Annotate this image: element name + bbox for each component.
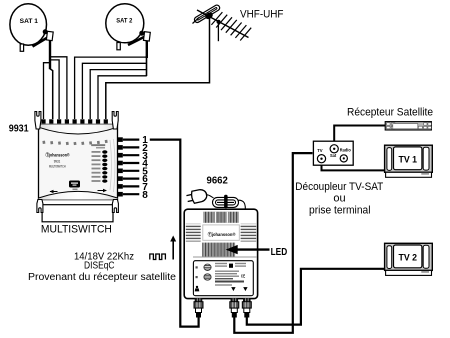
- antenna reflector tick: [193, 18, 200, 24]
- svg-text:Ⓣjohansson®: Ⓣjohansson®: [46, 151, 71, 158]
- multiswitch 9931: [35, 112, 119, 222]
- out labels column: [92, 150, 108, 183]
- satellite dish SAT1: [10, 4, 48, 52]
- svg-text:Récepteur Satellite: Récepteur Satellite: [347, 107, 433, 119]
- svg-text:TV: TV: [317, 148, 323, 153]
- wire LNB2 to input 8: [98, 76, 147, 119]
- svg-text:9931: 9931: [54, 160, 61, 164]
- svg-text:Découpleur TV-SAT: Découpleur TV-SAT: [295, 181, 383, 193]
- wall plate decoupleur: [313, 141, 353, 165]
- 9662 connector left: [194, 298, 203, 317]
- panel texture arcs: [110, 139, 115, 192]
- annotation pulse symbol: [150, 254, 166, 260]
- wire antenna to input 9: [106, 16, 210, 119]
- bottom left arrow: [50, 190, 58, 194]
- svg-text:Ⓣjohansson®: Ⓣjohansson®: [208, 231, 236, 238]
- mounting lug bottom-right: [112, 200, 118, 213]
- wire wall plate Sat to receiver: [334, 126, 385, 146]
- tiny marks left: [196, 266, 198, 268]
- svg-text:SAT 1: SAT 1: [20, 18, 39, 25]
- amplifier 9662 body: [184, 209, 257, 298]
- badge sub text: [73, 189, 78, 191]
- wire LNB1 to input 3: [50, 60, 59, 119]
- wire LNB2 to input 5: [75, 57, 147, 119]
- svg-text:SAT 2: SAT 2: [116, 17, 132, 24]
- svg-text:MULTISWITCH: MULTISWITCH: [41, 224, 112, 236]
- LNB SAT2: [139, 31, 150, 76]
- svg-text:TV 1: TV 1: [399, 154, 418, 164]
- svg-text:DISEqC: DISEqC: [84, 261, 115, 272]
- right side fins: [241, 224, 257, 242]
- tiny text rows right: [215, 263, 246, 286]
- mounting lug top-left: [35, 112, 41, 130]
- satellite receiver box: [385, 122, 431, 130]
- svg-text:ou: ou: [333, 193, 345, 205]
- wire output1 to 9662 input: [150, 140, 199, 327]
- LNB SAT1: [43, 29, 54, 119]
- svg-text:Radio: Radio: [340, 147, 351, 152]
- bottom curved band: [39, 191, 118, 199]
- left side fins: [186, 224, 201, 242]
- svg-text:MULTISWITCH: MULTISWITCH: [49, 164, 66, 168]
- multiswitch body: [39, 124, 118, 199]
- out labels column header: [91, 144, 105, 146]
- down arrows: [231, 287, 247, 291]
- svg-text:VHF-UHF: VHF-UHF: [240, 9, 284, 21]
- shelf line: [193, 256, 257, 258]
- antenna folded dipole: [193, 4, 220, 23]
- 9662 connector middle: [230, 298, 239, 317]
- wire 9662 right out to TV2: [247, 269, 385, 325]
- wire LNB2 to input 7: [90, 70, 147, 119]
- top vent block: [203, 212, 239, 223]
- antenna strut: [217, 22, 219, 41]
- wire 9662 middle out to wall plate: [234, 153, 312, 333]
- svg-text:Sat: Sat: [330, 153, 337, 158]
- antenna strut joint: [217, 20, 221, 24]
- antenna VHF-UHF: [193, 4, 252, 41]
- svg-text:CE: CE: [241, 274, 245, 279]
- person icon: [195, 286, 200, 292]
- johansson label plate 9662: [203, 225, 240, 240]
- output digits: [142, 135, 148, 201]
- power cord clamp: [224, 195, 228, 209]
- TV 1: [385, 145, 433, 177]
- black badge: [69, 181, 80, 188]
- svg-text:Provenant du récepteur satelli: Provenant du récepteur satellite: [28, 272, 177, 283]
- wire wall plate TV to TV1: [322, 162, 386, 170]
- wire LNB1 to input 1: [44, 57, 51, 119]
- svg-text:LED: LED: [271, 246, 288, 258]
- svg-text:prise terminal: prise terminal: [309, 204, 371, 216]
- wire LNB2 to input 6: [82, 63, 146, 119]
- amplifier 9662 power plug: [186, 188, 208, 204]
- top curved band: [39, 124, 118, 133]
- coil icon 1: [204, 264, 211, 270]
- svg-text:8: 8: [142, 190, 148, 201]
- annotation pulse arrow up: [170, 236, 176, 260]
- middle vent block: [202, 243, 235, 257]
- svg-text:9662: 9662: [207, 175, 228, 187]
- svg-text:TV 2: TV 2: [399, 252, 418, 262]
- coil icon 2: [204, 274, 211, 280]
- antenna boom: [197, 10, 249, 38]
- amplifier 9662 power cord coil: [206, 195, 246, 212]
- mounting lug bottom-left: [37, 200, 43, 213]
- antenna directors: [211, 12, 251, 40]
- 9662 lower panel: [193, 261, 253, 296]
- svg-text:9931: 9931: [9, 124, 29, 135]
- antenna feed blob: [204, 11, 214, 20]
- multiswitch outputs with stubs: [118, 135, 148, 201]
- TV 2: [385, 243, 433, 275]
- multiswitch bottom flange: [42, 205, 113, 222]
- input port marks row: [42, 140, 107, 145]
- 9662 connector right: [242, 298, 251, 317]
- multiswitch inputs: [41, 119, 107, 123]
- mounting lug top-right: [112, 112, 118, 130]
- LED arrow: [226, 245, 270, 254]
- bottom right arrow: [98, 189, 108, 193]
- wire LNB1 to input 4: [50, 57, 67, 119]
- satellite dish SAT2: [106, 4, 144, 50]
